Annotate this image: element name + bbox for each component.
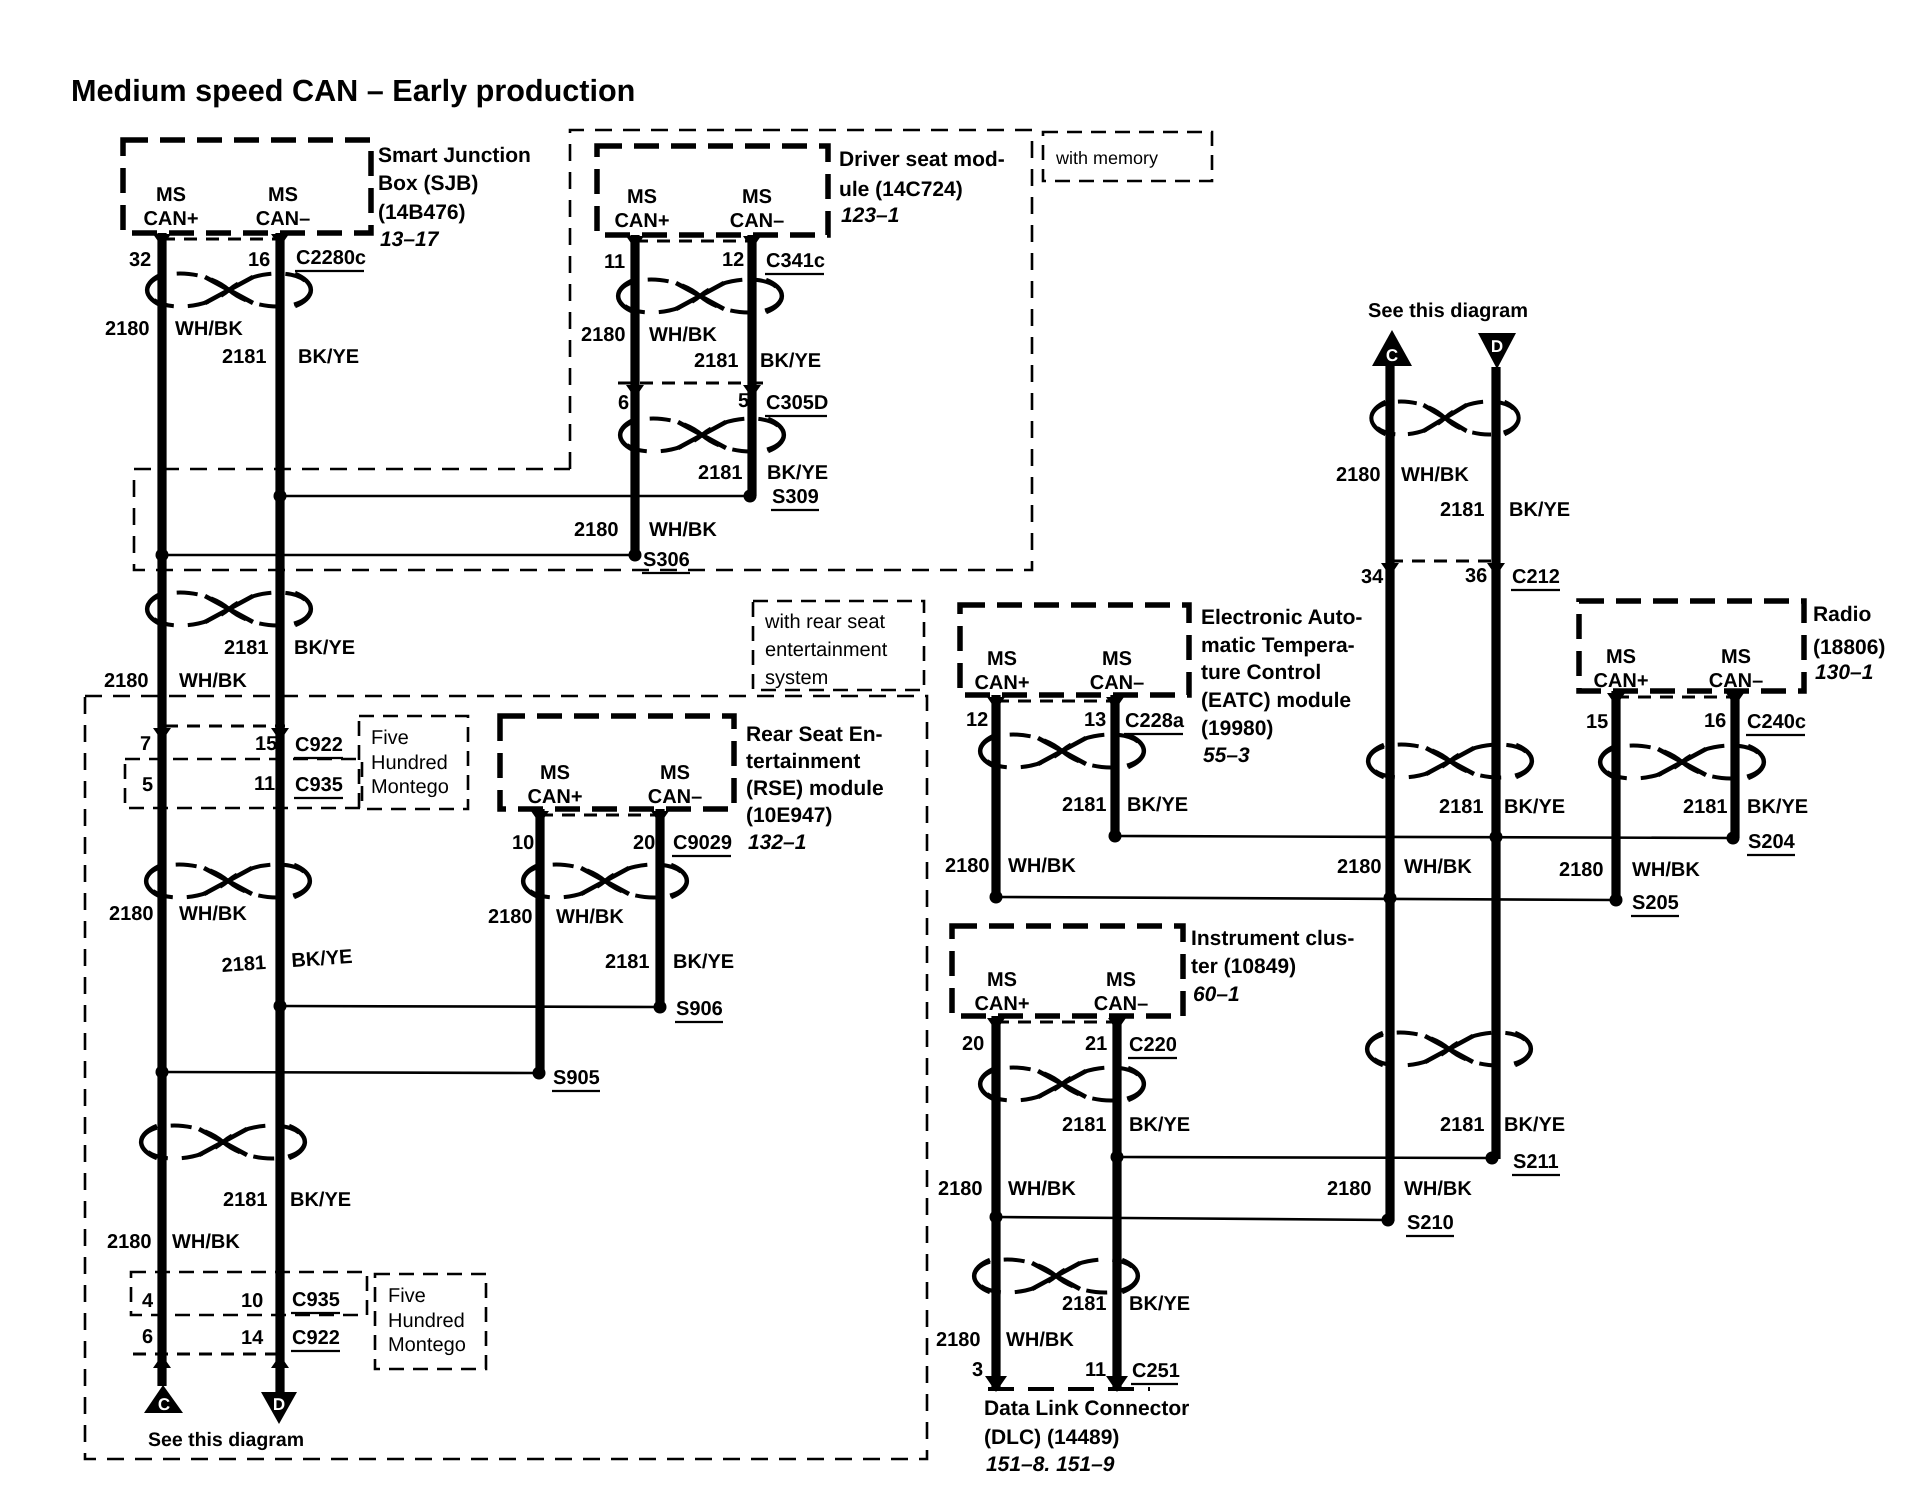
svg-text:CAN+: CAN+	[974, 672, 1029, 694]
connector interface line below EATC	[996, 700, 1115, 703]
svg-text:C922: C922	[295, 734, 343, 756]
svg-text:WH/BK: WH/BK	[1404, 856, 1472, 878]
svg-text:15: 15	[255, 733, 277, 755]
svg-text:13: 13	[1084, 709, 1106, 731]
twisted pair (DSM lower)	[620, 419, 784, 452]
arrowhead pin 36	[1487, 563, 1505, 576]
svg-text:D: D	[1491, 337, 1503, 356]
svg-text:BK/YE: BK/YE	[1504, 796, 1565, 818]
svg-text:20: 20	[633, 832, 655, 854]
option label box: with memory	[1043, 132, 1212, 181]
off-page arrow C (up)	[1372, 330, 1412, 366]
module U1 Smart Junction Box (SJB)	[123, 140, 371, 233]
svg-text:S204: S204	[1748, 831, 1796, 853]
svg-text:2180: 2180	[1337, 856, 1382, 878]
wire splice line S210	[996, 1217, 1388, 1220]
svg-text:2180: 2180	[1336, 464, 1381, 486]
connector interface line below IC	[996, 1021, 1117, 1024]
svg-text:BK/YE: BK/YE	[294, 637, 355, 659]
junction EATC CAN- end at S204 line	[1109, 830, 1122, 843]
connector interface line below DSM	[635, 240, 752, 243]
svg-text:151–8. 151–9: 151–8. 151–9	[986, 1453, 1115, 1476]
junction splice S210 end	[1382, 1214, 1395, 1227]
svg-text:2181: 2181	[694, 350, 739, 372]
wire circuit 2180 WH/BK (Radio CAN+) to S205	[1611, 691, 1620, 901]
svg-text:C9029: C9029	[673, 832, 732, 854]
svg-text:2180: 2180	[938, 1178, 983, 1200]
svg-text:S211: S211	[1513, 1151, 1559, 1173]
svg-text:BK/YE: BK/YE	[1747, 796, 1808, 818]
arrowhead DLC pin 11	[1106, 1376, 1128, 1392]
svg-text:S306: S306	[643, 549, 690, 571]
inline connector box C935 (upper)	[125, 759, 362, 808]
junction splice S905 end	[533, 1067, 546, 1080]
svg-text:CAN–: CAN–	[1094, 993, 1148, 1015]
svg-text:(14B476): (14B476)	[378, 201, 466, 224]
twisted pair (DLC)	[974, 1260, 1138, 1293]
svg-text:BK/YE: BK/YE	[1127, 794, 1188, 816]
svg-text:Medium speed CAN – Early produ: Medium speed CAN – Early production	[71, 74, 635, 108]
svg-text:10: 10	[241, 1290, 263, 1312]
svg-text:WH/BK: WH/BK	[649, 519, 717, 541]
svg-text:WH/BK: WH/BK	[556, 906, 624, 928]
module Instrument cluster	[952, 926, 1183, 1016]
svg-text:MS: MS	[1102, 648, 1132, 670]
svg-text:7: 7	[140, 733, 151, 755]
svg-text:2181: 2181	[221, 952, 267, 977]
arrowhead pin 15	[1607, 693, 1625, 706]
svg-text:CAN–: CAN–	[648, 786, 702, 808]
svg-text:(19980): (19980)	[1201, 717, 1273, 740]
svg-text:MS: MS	[742, 186, 772, 208]
module EATC	[960, 605, 1189, 695]
svg-text:2181: 2181	[223, 1189, 268, 1211]
twisted pair (left col 4)	[141, 1126, 305, 1159]
wire circuit 2181 BK/YE (IC CAN-) to DLC	[1112, 1016, 1121, 1390]
svg-text:matic Tempera-: matic Tempera-	[1201, 634, 1355, 657]
wire circuit 2180 WH/BK (SJB CAN+) to arrow C	[157, 233, 166, 1386]
enclosure: with rear seat entertainment system option	[85, 696, 927, 1459]
junction splice S204 end	[1727, 832, 1740, 845]
junction junction on SJB CAN+ wire	[156, 549, 169, 562]
twisted pair (EATC)	[980, 735, 1144, 768]
svg-text:12: 12	[722, 249, 744, 271]
svg-text:60–1: 60–1	[1193, 983, 1240, 1006]
svg-text:CAN+: CAN+	[614, 210, 669, 232]
svg-text:2181: 2181	[605, 951, 650, 973]
svg-text:2180: 2180	[104, 670, 149, 692]
svg-text:CAN–: CAN–	[1709, 670, 1763, 692]
wire circuit 2180 WH/BK (EATC CAN+) to S205	[991, 695, 1000, 897]
svg-text:Radio: Radio	[1813, 603, 1871, 626]
svg-text:Rear Seat En-: Rear Seat En-	[746, 723, 883, 746]
svg-text:MS: MS	[1106, 969, 1136, 991]
svg-text:S905: S905	[553, 1067, 600, 1089]
svg-text:130–1: 130–1	[1815, 661, 1873, 684]
svg-text:WH/BK: WH/BK	[179, 903, 247, 925]
connector DLC outline	[988, 1387, 1150, 1391]
junction splice S309 end	[744, 490, 757, 503]
svg-text:2180: 2180	[936, 1329, 981, 1351]
svg-text:2181: 2181	[224, 637, 269, 659]
svg-text:WH/BK: WH/BK	[1404, 1178, 1472, 1200]
svg-text:C228a: C228a	[1125, 710, 1185, 732]
svg-text:WH/BK: WH/BK	[649, 324, 717, 346]
svg-text:36: 36	[1465, 565, 1487, 587]
svg-text:CAN–: CAN–	[256, 208, 310, 230]
option label box Five Hundred Montego (lower)	[375, 1274, 486, 1369]
svg-text:16: 16	[248, 249, 270, 271]
svg-text:6: 6	[618, 392, 629, 414]
svg-text:tertainment: tertainment	[746, 750, 860, 773]
svg-text:15: 15	[1586, 711, 1608, 733]
svg-text:21: 21	[1085, 1033, 1107, 1055]
wire circuit 2181 BK/YE (DSM CAN-) to S309	[747, 235, 756, 496]
svg-text:S309: S309	[772, 486, 819, 508]
svg-text:C: C	[158, 1395, 170, 1414]
svg-text:55–3: 55–3	[1203, 744, 1250, 767]
svg-text:2181: 2181	[1683, 796, 1728, 818]
svg-text:Box (SJB): Box (SJB)	[378, 172, 478, 195]
svg-text:132–1: 132–1	[748, 831, 806, 854]
svg-text:MS: MS	[1721, 646, 1751, 668]
svg-text:MS: MS	[540, 762, 570, 784]
off-page arrow D (bottom, down-pointing)	[261, 1392, 297, 1424]
svg-text:5: 5	[738, 390, 749, 412]
svg-text:BK/YE: BK/YE	[1129, 1293, 1190, 1315]
module RSE	[500, 716, 734, 809]
twisted pair (centre upper)	[1371, 402, 1519, 435]
junction junction IC CAN- wire	[1111, 1151, 1124, 1164]
arrowhead pin 16	[271, 234, 289, 247]
svg-text:2181: 2181	[1062, 1114, 1107, 1136]
wire splice line S204	[1115, 836, 1733, 838]
svg-text:2181: 2181	[1062, 794, 1107, 816]
svg-text:C212: C212	[1512, 566, 1560, 588]
svg-text:(DLC) (14489): (DLC) (14489)	[984, 1426, 1119, 1449]
wire circuit 2180 WH/BK (IC CAN+) to DLC	[991, 1016, 1000, 1390]
svg-text:WH/BK: WH/BK	[1006, 1329, 1074, 1351]
svg-text:CAN–: CAN–	[1090, 672, 1144, 694]
junction junction SJB CAN+ wire at S905	[156, 1066, 169, 1079]
svg-text:6: 6	[142, 1326, 153, 1348]
inline connector C305D	[618, 382, 770, 385]
option label box Five Hundred Montego (upper)	[359, 716, 468, 809]
svg-text:(10E947): (10E947)	[746, 804, 832, 827]
arrowhead pin 15	[271, 728, 289, 741]
svg-text:MS: MS	[987, 648, 1017, 670]
svg-text:C240c: C240c	[1747, 711, 1806, 733]
svg-text:C305D: C305D	[766, 392, 828, 414]
svg-text:ture Control: ture Control	[1201, 661, 1321, 684]
svg-text:13–17: 13–17	[380, 228, 440, 251]
svg-text:BK/YE: BK/YE	[1504, 1114, 1565, 1136]
arrowhead pin 21	[1108, 1018, 1126, 1031]
svg-text:CAN+: CAN+	[527, 786, 582, 808]
svg-text:C935: C935	[295, 774, 343, 796]
wire label 2181 BK/YE (left col 3, skewed)	[221, 946, 353, 977]
twisted pair (left col 2)	[147, 593, 311, 626]
svg-text:14: 14	[241, 1327, 264, 1349]
svg-text:WH/BK: WH/BK	[179, 670, 247, 692]
inline connector C922 line (lower)	[133, 1353, 286, 1356]
arrowhead pin 7	[153, 728, 171, 741]
svg-text:MS: MS	[156, 184, 186, 206]
svg-text:2180: 2180	[109, 903, 154, 925]
svg-text:MS: MS	[627, 186, 657, 208]
svg-text:CAN+: CAN+	[974, 993, 1029, 1015]
svg-text:32: 32	[129, 249, 151, 271]
svg-text:BK/YE: BK/YE	[760, 350, 821, 372]
svg-text:(RSE) module: (RSE) module	[746, 777, 884, 800]
svg-text:Instrument clus-: Instrument clus-	[1191, 927, 1354, 950]
svg-text:20: 20	[962, 1033, 984, 1055]
twisted pair (DSM upper)	[618, 280, 782, 313]
wire splice line S205	[996, 897, 1616, 900]
svg-text:ter (10849): ter (10849)	[1191, 955, 1296, 978]
svg-text:CAN+: CAN+	[1593, 670, 1648, 692]
option label box: with rear seat entertainment system	[753, 601, 924, 690]
svg-text:10: 10	[512, 832, 534, 854]
svg-text:system: system	[765, 667, 828, 689]
junction splice S211 end	[1486, 1152, 1499, 1165]
wire circuit 2181 BK/YE (Radio CAN-) to S204	[1730, 691, 1739, 838]
svg-text:34: 34	[1361, 566, 1384, 588]
svg-text:C341c: C341c	[766, 250, 825, 272]
arrowhead pin 13 EATC	[1106, 697, 1124, 710]
arrowhead pin 6 up	[153, 1355, 171, 1368]
svg-text:(EATC) module: (EATC) module	[1201, 689, 1351, 712]
svg-text:C922: C922	[292, 1327, 340, 1349]
svg-text:Smart Junction: Smart Junction	[378, 144, 531, 167]
svg-text:Five: Five	[388, 1285, 426, 1307]
arrowhead pin 12 EATC	[987, 697, 1005, 710]
svg-text:WH/BK: WH/BK	[1008, 1178, 1076, 1200]
svg-text:WH/BK: WH/BK	[175, 318, 243, 340]
svg-text:entertainment: entertainment	[765, 639, 888, 661]
inline connector C212	[1390, 560, 1497, 563]
svg-text:BK/YE: BK/YE	[1509, 499, 1570, 521]
off-page arrow C (bottom, up-pointing)	[144, 1385, 183, 1413]
svg-text:2181: 2181	[222, 346, 267, 368]
svg-text:WH/BK: WH/BK	[172, 1231, 240, 1253]
svg-text:CAN–: CAN–	[730, 210, 784, 232]
arrowhead pin 20 RSE	[651, 811, 669, 824]
arrowhead pin 20	[987, 1018, 1005, 1031]
svg-text:2181: 2181	[1062, 1293, 1107, 1315]
module Radio	[1579, 601, 1804, 691]
arrowhead pin 16 radio	[1726, 693, 1744, 706]
svg-text:Driver seat mod-: Driver seat mod-	[839, 148, 1005, 171]
svg-text:BK/YE: BK/YE	[290, 1189, 351, 1211]
wire circuit 2181 BK/YE (SJB CAN-) to arrow D	[275, 233, 284, 1392]
svg-text:C: C	[1386, 346, 1398, 365]
wire splice line S306	[162, 554, 635, 557]
junction EATC CAN+ end at S205 line	[990, 891, 1003, 904]
svg-text:D: D	[273, 1395, 285, 1414]
svg-text:See this diagram: See this diagram	[1368, 300, 1528, 322]
arrowhead pin 14 up	[271, 1355, 289, 1368]
svg-text:2180: 2180	[105, 318, 150, 340]
svg-text:BK/YE: BK/YE	[298, 346, 359, 368]
wire circuit 2181 BK/YE (RSE CAN-) to S906	[655, 809, 664, 1008]
svg-text:ule (14C724): ule (14C724)	[839, 178, 963, 201]
twisted pair (RSE)	[523, 865, 687, 898]
inline connector C922 (upper)	[165, 725, 285, 728]
svg-text:MS: MS	[1606, 646, 1636, 668]
arrowhead pin 12	[743, 236, 761, 249]
connector interface line below Radio	[1616, 696, 1735, 699]
svg-text:16: 16	[1704, 710, 1726, 732]
arrowhead DLC pin 3	[985, 1376, 1007, 1392]
svg-text:3: 3	[972, 1359, 983, 1381]
svg-text:2180: 2180	[1559, 859, 1604, 881]
junction junction SJB CAN- wire at S906	[274, 1000, 287, 1013]
connector interface line below SJB	[162, 238, 280, 241]
svg-text:2181: 2181	[698, 462, 743, 484]
svg-text:WH/BK: WH/BK	[1632, 859, 1700, 881]
svg-text:MS: MS	[268, 184, 298, 206]
inline connector box C935 (lower)	[131, 1272, 367, 1315]
wire circuit 2181 BK/YE (EATC CAN-) to S204	[1110, 695, 1119, 836]
svg-text:Five: Five	[371, 727, 409, 749]
svg-text:2181: 2181	[1440, 499, 1485, 521]
twisted pair (SJB)	[147, 274, 311, 307]
twisted pair (IC upper)	[980, 1068, 1144, 1101]
twisted pair (centre lower)	[1367, 1033, 1531, 1066]
svg-text:Hundred: Hundred	[371, 752, 448, 774]
svg-text:Electronic Auto-: Electronic Auto-	[1201, 606, 1362, 629]
svg-text:2180: 2180	[1327, 1178, 1372, 1200]
svg-text:MS: MS	[660, 762, 690, 784]
junction splice S205 end	[1610, 894, 1623, 907]
svg-text:12: 12	[966, 709, 988, 731]
junction splice S306 end	[629, 549, 642, 562]
svg-text:CAN+: CAN+	[143, 208, 198, 230]
svg-text:11: 11	[604, 251, 625, 273]
svg-text:MS: MS	[987, 969, 1017, 991]
arrowhead pin 5	[743, 385, 761, 398]
off-page arrow D (down)	[1478, 333, 1516, 369]
junction junction on SJB CAN- wire	[274, 490, 287, 503]
junction junction centre CAN- wire	[1490, 831, 1503, 844]
twisted pair (centre middle)	[1368, 745, 1532, 778]
svg-text:C251: C251	[1132, 1360, 1180, 1382]
svg-text:2180: 2180	[574, 519, 619, 541]
svg-text:11: 11	[254, 773, 275, 795]
svg-text:S906: S906	[676, 998, 723, 1020]
svg-text:Montego: Montego	[388, 1334, 466, 1356]
svg-text:BK/YE: BK/YE	[1129, 1114, 1190, 1136]
arrowhead pin 10	[531, 811, 549, 824]
wire circuit 2180 WH/BK (DSM CAN+) to S306	[630, 235, 639, 555]
svg-text:123–1: 123–1	[841, 204, 899, 227]
svg-text:5: 5	[142, 774, 153, 796]
svg-text:BK/YE: BK/YE	[767, 462, 828, 484]
svg-text:2180: 2180	[945, 855, 990, 877]
wire circuit 2180 WH/BK (RSE CAN+) to S905	[535, 809, 544, 1073]
arrowhead pin 34	[1381, 563, 1399, 576]
wire splice line S905	[162, 1072, 539, 1073]
junction splice S906 end	[654, 1001, 667, 1014]
svg-text:with rear seat: with rear seat	[764, 611, 885, 633]
svg-text:2181: 2181	[1439, 796, 1484, 818]
svg-text:2180: 2180	[107, 1231, 152, 1253]
twisted pair (Radio)	[1600, 746, 1764, 779]
arrowhead pin 11	[626, 236, 644, 249]
svg-text:S205: S205	[1632, 892, 1679, 914]
svg-text:WH/BK: WH/BK	[1008, 855, 1076, 877]
wire splice line S906	[280, 1006, 660, 1007]
svg-text:See this diagram: See this diagram	[148, 1429, 304, 1451]
svg-text:C935: C935	[292, 1289, 340, 1311]
wire circuit 2180 WH/BK centre (from arrow C) to S210	[1385, 364, 1394, 1221]
svg-text:11: 11	[1085, 1359, 1106, 1381]
svg-text:4: 4	[142, 1290, 154, 1312]
connector interface line below RSE	[540, 814, 660, 817]
wire splice line S309	[280, 495, 750, 498]
enclosure: with memory option	[134, 130, 1032, 570]
svg-text:2181: 2181	[1440, 1114, 1485, 1136]
svg-text:C220: C220	[1129, 1034, 1177, 1056]
svg-text:with memory: with memory	[1055, 148, 1158, 168]
svg-text:BK/YE: BK/YE	[291, 946, 354, 972]
svg-text:C2280c: C2280c	[296, 247, 366, 269]
svg-text:Montego: Montego	[371, 776, 449, 798]
svg-text:BK/YE: BK/YE	[673, 951, 734, 973]
svg-text:S210: S210	[1407, 1212, 1454, 1234]
wire splice line S211	[1117, 1157, 1492, 1158]
svg-text:WH/BK: WH/BK	[1401, 464, 1469, 486]
svg-text:Hundred: Hundred	[388, 1310, 465, 1332]
svg-text:2180: 2180	[581, 324, 626, 346]
wire circuit 2181 BK/YE centre (from arrow D) to S211	[1491, 367, 1500, 1159]
twisted pair (left col 3)	[146, 865, 310, 898]
junction junction centre CAN+ wire	[1384, 892, 1397, 905]
svg-text:(18806): (18806)	[1813, 636, 1885, 659]
svg-text:2180: 2180	[488, 906, 533, 928]
module Driver seat module	[597, 146, 828, 235]
arrowhead pin 6	[626, 385, 644, 398]
junction junction IC CAN+ wire	[990, 1211, 1003, 1224]
arrowhead pin 32	[153, 234, 171, 247]
svg-text:Data Link Connector: Data Link Connector	[984, 1397, 1189, 1420]
